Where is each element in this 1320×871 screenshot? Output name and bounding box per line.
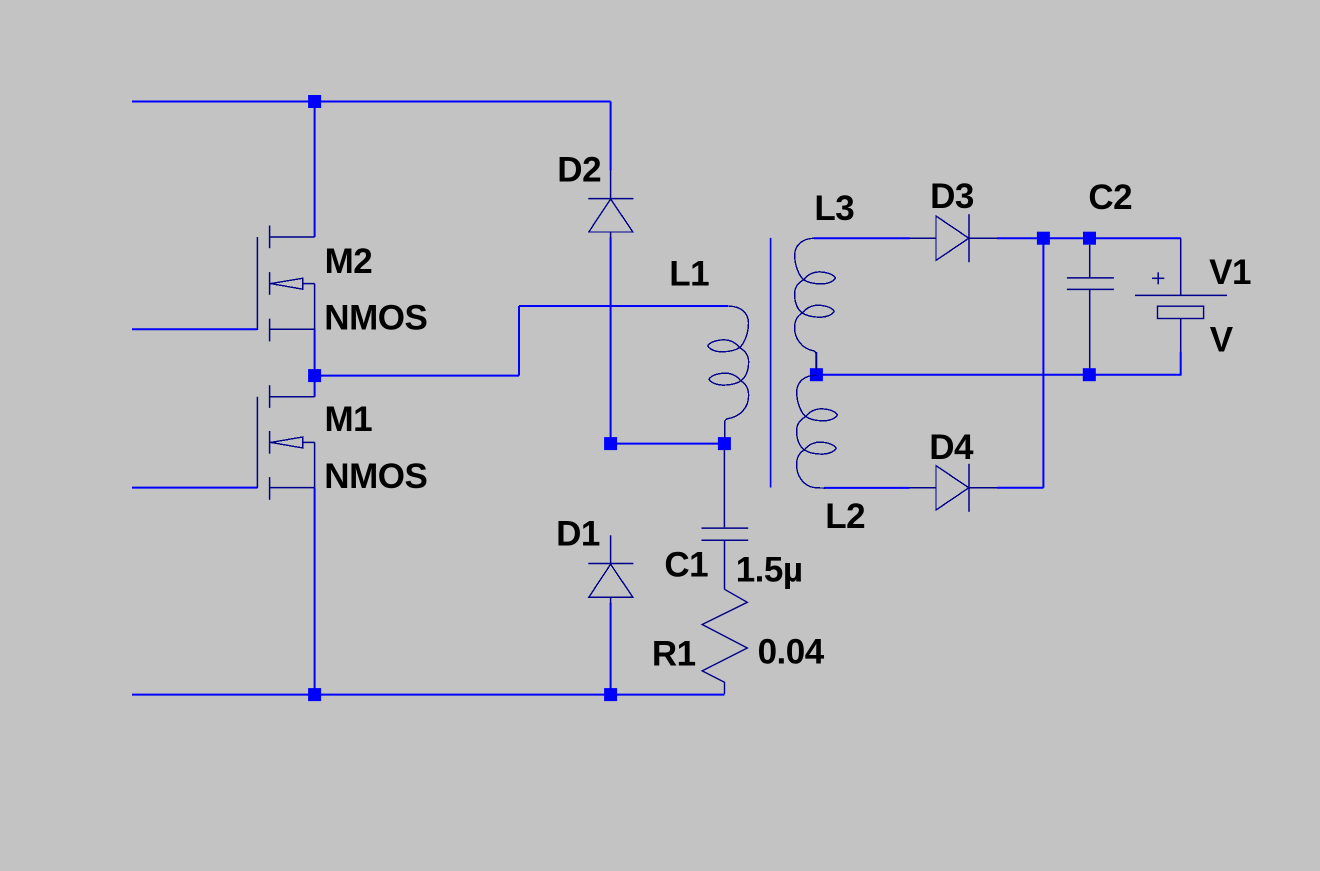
diode D4 bbox=[909, 464, 997, 512]
inductor L1 (primary winding) bbox=[708, 306, 749, 437]
wire D2 to D1 node bbox=[610, 238, 612, 444]
wire D3 to V1 top bbox=[997, 237, 1181, 239]
inductor L2 (secondary bottom winding) bbox=[797, 375, 838, 488]
wire node mid horizontal bbox=[315, 375, 519, 377]
svg-text:C2: C2 bbox=[1088, 178, 1132, 217]
wire M1 gate bbox=[132, 487, 257, 489]
wire output bottom rail bbox=[816, 374, 1180, 376]
capacitor C1 bbox=[702, 450, 749, 589]
svg-text:D3: D3 bbox=[930, 177, 974, 216]
capacitor C2 bbox=[1067, 245, 1114, 368]
node L1 bottom / C1 bbox=[718, 437, 731, 450]
wire top rail bbox=[132, 101, 611, 103]
transistor M1 (NMOS) bbox=[257, 385, 314, 500]
voltage source V1 (battery) bbox=[1135, 238, 1227, 351]
node bottom-rail / D1 bbox=[604, 688, 617, 701]
svg-text:V: V bbox=[1210, 321, 1234, 360]
diode D3 bbox=[909, 214, 997, 262]
diode D2 bbox=[588, 170, 633, 239]
svg-text:M2: M2 bbox=[325, 242, 373, 281]
wire D4 up to top rail bbox=[1042, 238, 1044, 488]
wire bottom rail bbox=[132, 694, 725, 696]
resistor R1 bbox=[702, 589, 747, 694]
node D2/D1/L1 bbox=[604, 437, 617, 450]
svg-text:R1: R1 bbox=[652, 635, 696, 674]
wire M2 gate bbox=[132, 328, 257, 330]
wire M1 source bbox=[314, 488, 316, 695]
wire node to L1 bottom bbox=[611, 443, 725, 445]
wire to L1 top bbox=[519, 305, 729, 307]
svg-text:C1: C1 bbox=[664, 546, 708, 585]
svg-text:L3: L3 bbox=[814, 189, 854, 228]
svg-text:NMOS: NMOS bbox=[324, 299, 427, 338]
svg-text:V1: V1 bbox=[1209, 253, 1251, 292]
node C2 bottom bbox=[1083, 368, 1096, 381]
transistor M2 (NMOS) bbox=[257, 226, 314, 342]
svg-text:L1: L1 bbox=[669, 254, 709, 293]
svg-text:M1: M1 bbox=[325, 400, 373, 439]
inductor L3 (secondary top winding) bbox=[795, 238, 836, 369]
wire L3 bottom pin bbox=[815, 352, 817, 375]
svg-text:0.04: 0.04 bbox=[758, 633, 825, 672]
wire node mid vertical bbox=[518, 306, 520, 376]
node bottom-rail / M1 source bbox=[308, 688, 321, 701]
diode D1 bbox=[588, 535, 633, 604]
wire L2 to D4 bbox=[824, 487, 910, 489]
wire M1 drain bbox=[314, 376, 316, 397]
svg-text:D2: D2 bbox=[557, 150, 601, 189]
node D3 out / D4 out bbox=[1037, 232, 1050, 245]
svg-text:D1: D1 bbox=[556, 515, 600, 554]
node C2 top bbox=[1083, 232, 1096, 245]
wire D1 bottom bbox=[610, 603, 612, 695]
svg-text:1.5µ: 1.5µ bbox=[736, 551, 803, 590]
svg-text:D4: D4 bbox=[929, 428, 974, 467]
svg-text:L2: L2 bbox=[825, 497, 865, 536]
wire M2 source bbox=[314, 329, 316, 375]
transformer core bbox=[770, 238, 772, 488]
svg-text:NMOS: NMOS bbox=[324, 457, 427, 496]
wire D2 top bbox=[610, 102, 612, 171]
wire V1 bottom bbox=[1180, 352, 1182, 376]
wire D4 to corner bbox=[997, 487, 1043, 489]
wire L3 top to D3 bbox=[814, 237, 910, 239]
node top-rail / M2 drain bbox=[308, 95, 321, 108]
node M2 source / M1 drain bbox=[308, 369, 321, 382]
node L3/L2 centre tap bbox=[810, 368, 823, 381]
wire M2 drain bbox=[314, 102, 316, 238]
